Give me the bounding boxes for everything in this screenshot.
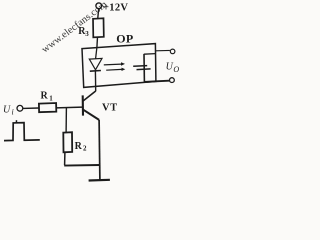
svg-text:R: R bbox=[75, 141, 83, 152]
svg-text:R: R bbox=[41, 90, 49, 101]
svg-text:3: 3 bbox=[85, 30, 89, 38]
svg-text:VT: VT bbox=[102, 102, 118, 113]
svg-text:U: U bbox=[3, 105, 11, 116]
svg-text:U: U bbox=[166, 62, 174, 73]
svg-text:O: O bbox=[173, 65, 179, 74]
svg-text:+12V: +12V bbox=[103, 3, 128, 14]
svg-text:i: i bbox=[12, 108, 14, 117]
svg-text:1: 1 bbox=[49, 94, 53, 102]
svg-text:OP: OP bbox=[116, 31, 133, 45]
svg-text:2: 2 bbox=[83, 145, 87, 153]
